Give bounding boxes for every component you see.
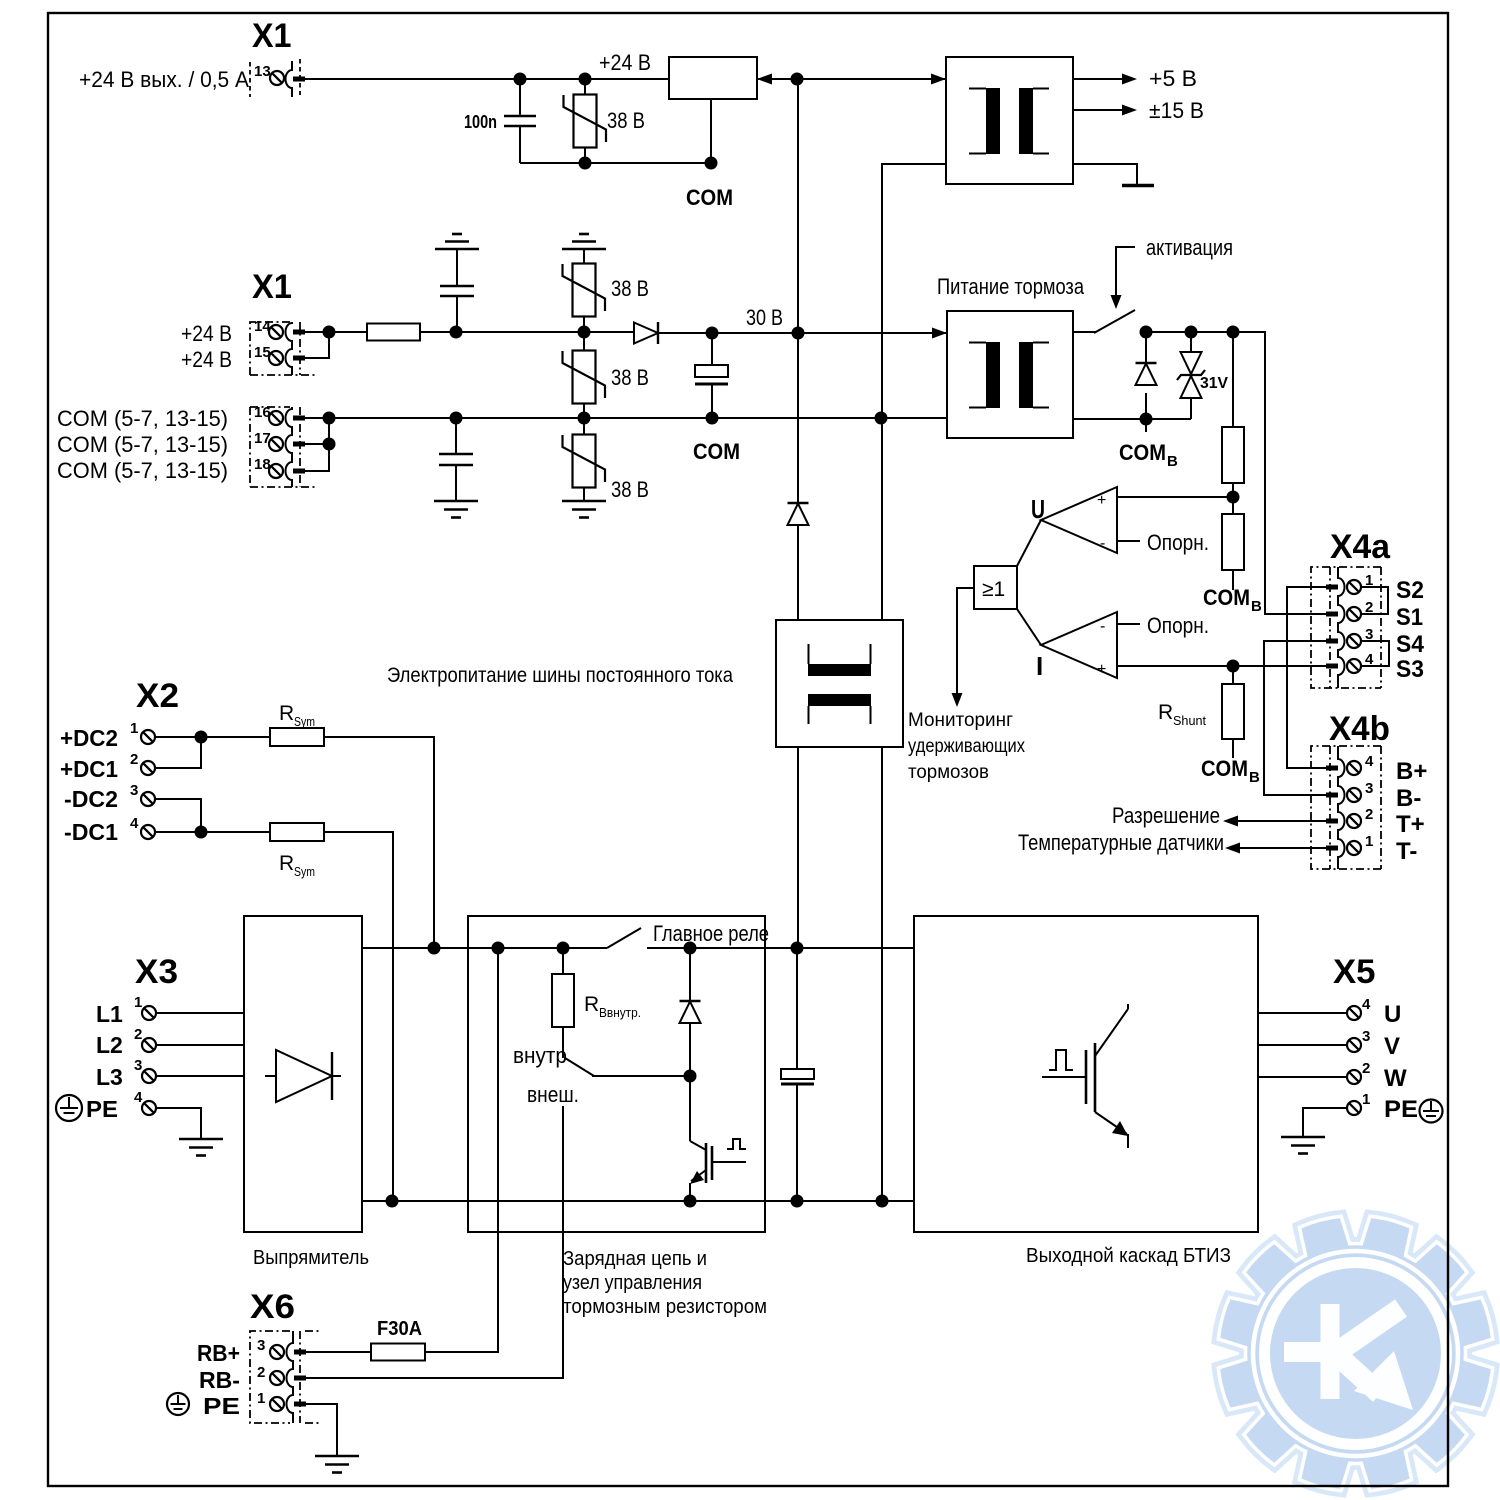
X2 pin 4 — [141, 825, 155, 839]
svg-text:COM: COM — [693, 439, 740, 464]
svg-text:-: - — [1100, 618, 1105, 635]
svg-text:Ввнутр.: Ввнутр. — [599, 1005, 641, 1020]
svg-text:COM: COM — [1201, 756, 1248, 781]
svg-text:X1: X1 — [252, 268, 292, 306]
svg-text:R: R — [279, 702, 294, 725]
jumper S4-S3 — [1362, 641, 1389, 666]
svg-text:Зарядная цепь и: Зарядная цепь и — [563, 1248, 707, 1270]
svg-text:1: 1 — [130, 720, 138, 737]
wire to DC+ bus — [797, 747, 799, 948]
wire U- reference — [1117, 540, 1140, 542]
wire transformer return left — [882, 164, 946, 418]
node — [706, 327, 719, 340]
wire transformer right to chassis — [1073, 164, 1137, 185]
X2 pin 3 — [141, 792, 155, 806]
svg-text:38 В: 38 В — [611, 365, 649, 390]
wire I- reference — [1117, 623, 1140, 625]
svg-text:PE: PE — [1384, 1096, 1418, 1123]
svg-text:COM: COM — [686, 185, 733, 210]
node — [578, 412, 591, 425]
svg-text:внеш.: внеш. — [527, 1082, 579, 1107]
freewheel diode to COMB — [1136, 332, 1157, 419]
wire U+ input — [1117, 496, 1233, 498]
node — [579, 157, 592, 170]
node — [386, 1195, 399, 1208]
vertical 30V feed line — [797, 79, 799, 333]
jumper S2-S1 — [1362, 587, 1388, 614]
svg-text:2: 2 — [130, 751, 138, 768]
svg-text:V: V — [1384, 1033, 1400, 1060]
svg-text:L2: L2 — [96, 1032, 123, 1058]
diode up on 30V line — [788, 333, 809, 620]
svg-text:2: 2 — [257, 1364, 265, 1381]
svg-text:Температурные датчики: Температурные датчики — [1018, 830, 1224, 855]
svg-text:S4: S4 — [1396, 631, 1425, 658]
node — [428, 942, 441, 955]
svg-text:+24 В: +24 В — [181, 321, 232, 346]
node — [323, 326, 336, 339]
svg-text:30 В: 30 В — [746, 305, 783, 330]
comparator U — [1031, 487, 1117, 553]
diode series 24V — [634, 322, 947, 344]
svg-text:Выпрямитель: Выпрямитель — [253, 1247, 369, 1269]
rectifier diode symbol — [265, 1050, 341, 1102]
wire fuse to diode — [420, 331, 634, 333]
transformer brake supply — [947, 311, 1073, 438]
svg-text:3: 3 — [130, 782, 138, 799]
resistor RSym upper — [270, 728, 324, 746]
svg-text:1: 1 — [257, 1390, 265, 1407]
wire box to COM node — [710, 99, 712, 163]
svg-text:L1: L1 — [96, 1001, 123, 1027]
DC bus electrolytic capacitor — [781, 948, 814, 1201]
X1 pin 13 terminal — [270, 71, 284, 85]
svg-text:3: 3 — [134, 1057, 142, 1074]
svg-text:W: W — [1384, 1065, 1407, 1092]
svg-text:4: 4 — [134, 1089, 143, 1106]
output ±15V — [1073, 109, 1124, 111]
svg-text:тормозов: тормозов — [908, 762, 989, 783]
varistor 38 B (COM to earth lower) — [562, 418, 649, 518]
svg-text:Мониторинг: Мониторинг — [908, 710, 1013, 731]
node — [514, 73, 527, 86]
svg-text:T-: T- — [1396, 838, 1417, 865]
X5 pin 3 V — [1258, 1028, 1400, 1060]
node — [323, 438, 336, 451]
OR gate >=1 — [974, 566, 1017, 609]
wire -DC1 — [155, 831, 270, 833]
svg-text:X5: X5 — [1333, 953, 1376, 991]
RB+ line from DC+ bus — [425, 948, 498, 1352]
transformer DC-bus supply — [776, 620, 903, 747]
capacitor COM to earth (lower) — [434, 418, 478, 518]
chopper freewheel diode — [680, 948, 701, 1076]
comparator I — [1036, 612, 1117, 681]
capacitor 100n — [464, 79, 536, 163]
main relay blade — [607, 928, 641, 948]
svg-text:-DC2: -DC2 — [64, 786, 118, 812]
svg-text:+5 В: +5 В — [1149, 66, 1197, 91]
output +5V — [1073, 78, 1124, 80]
svg-text:Sym: Sym — [294, 864, 315, 879]
svg-text:X3: X3 — [135, 953, 178, 991]
charging circuit box — [468, 916, 765, 1232]
fuse — [367, 324, 420, 341]
svg-text:COM (5-7, 13-15): COM (5-7, 13-15) — [57, 458, 228, 483]
X5 pin 4 U — [1258, 996, 1401, 1028]
svg-text:S2: S2 — [1396, 577, 1424, 604]
pin15 wire — [305, 332, 329, 358]
connector X4b body — [1311, 746, 1381, 869]
node — [1140, 326, 1153, 339]
wire L1 — [156, 1012, 244, 1014]
node — [323, 412, 336, 425]
wire to DC- bus — [881, 747, 883, 1201]
output stage box — [914, 916, 1258, 1232]
X1 block pins 16-18 connector body — [250, 404, 318, 487]
X3 pin 4 — [142, 1101, 156, 1115]
wire L2 — [156, 1044, 244, 1046]
svg-text:F30A: F30A — [377, 1318, 422, 1340]
DC- bus — [362, 1200, 914, 1202]
svg-text:B-: B- — [1396, 785, 1421, 812]
vertical return line — [881, 418, 883, 620]
svg-text:+: + — [1097, 661, 1106, 678]
X5 pin 1 PE — [1281, 1091, 1418, 1154]
wire to DC+ bus — [324, 737, 434, 948]
X2 pin 2 — [141, 761, 155, 775]
resistor RSym lower — [270, 823, 324, 841]
wire enable T+ — [1236, 820, 1326, 822]
node — [557, 942, 570, 955]
divider resistor upper — [1222, 332, 1244, 514]
X1 block pins 14-15 connector body — [250, 318, 318, 375]
PE symbol — [56, 1095, 82, 1121]
transformer DC/DC +5/15 — [946, 57, 1073, 184]
wire U output to OR — [1017, 520, 1041, 566]
svg-text:38 В: 38 В — [607, 108, 645, 133]
wire -DC2 — [155, 799, 201, 832]
svg-text:Выходной каскад БТИЗ: Выходной каскад БТИЗ — [1026, 1245, 1231, 1267]
wire 30V out to switch — [1073, 331, 1096, 333]
connector X4a body — [1311, 567, 1381, 688]
svg-text:I: I — [1036, 651, 1043, 681]
switch активация blade — [1094, 310, 1135, 333]
svg-text:38 В: 38 В — [611, 276, 649, 301]
node COM — [705, 157, 718, 170]
output IGBT symbol — [1042, 1004, 1128, 1148]
node — [876, 1195, 889, 1208]
external brake resistor line to RB- — [305, 1106, 563, 1378]
svg-text:X6: X6 — [250, 1288, 295, 1326]
svg-text:R: R — [1158, 701, 1173, 724]
svg-text:38 В: 38 В — [611, 477, 649, 502]
svg-text:+24 В вых. / 0,5 А: +24 В вых. / 0,5 А — [79, 67, 249, 92]
svg-text:13: 13 — [254, 63, 271, 80]
regulator box — [669, 57, 757, 99]
svg-text:31V: 31V — [1200, 375, 1228, 392]
svg-text:PE: PE — [86, 1096, 118, 1122]
DC+ bus right part — [647, 947, 914, 949]
svg-text:2: 2 — [1365, 806, 1373, 823]
svg-text:X4b: X4b — [1329, 710, 1390, 748]
X3 pin 3 — [142, 1069, 156, 1083]
pin18 wire — [305, 418, 329, 471]
svg-text:4: 4 — [130, 815, 139, 832]
wire PE to earth — [156, 1108, 201, 1139]
shunt resistor — [1158, 666, 1260, 786]
activation arrow — [1111, 235, 1234, 309]
svg-text:3: 3 — [257, 1337, 265, 1354]
PE symbol X5 — [1420, 1100, 1443, 1123]
node — [450, 326, 463, 339]
wire PE to earth — [306, 1404, 337, 1456]
svg-text:активация: активация — [1146, 235, 1233, 260]
svg-text:+: + — [1097, 492, 1106, 509]
svg-text:PE: PE — [203, 1393, 240, 1419]
svg-text:COM (5-7, 13-15): COM (5-7, 13-15) — [57, 432, 228, 457]
svg-text:2: 2 — [1362, 1060, 1370, 1077]
node — [875, 412, 888, 425]
wire COM rail bottom — [520, 162, 711, 164]
svg-text:B: B — [1249, 769, 1260, 786]
node — [791, 1195, 804, 1208]
svg-text:L3: L3 — [96, 1064, 123, 1090]
capacitor to earth (upper) — [435, 234, 479, 332]
svg-text:2: 2 — [134, 1026, 142, 1043]
node — [791, 942, 804, 955]
svg-text:S1: S1 — [1396, 604, 1423, 631]
svg-text:T+: T+ — [1396, 811, 1425, 838]
fuse F30A — [371, 1344, 425, 1361]
svg-text:R: R — [584, 993, 599, 1016]
node — [684, 1195, 697, 1208]
wire +DC1 — [155, 737, 201, 768]
svg-text:100n: 100n — [464, 112, 497, 132]
pin14 wire — [305, 331, 367, 333]
node — [492, 942, 505, 955]
svg-text:+DC2: +DC2 — [60, 725, 118, 751]
svg-text:COM (5-7, 13-15): COM (5-7, 13-15) — [57, 406, 228, 431]
svg-text:Разрешение: Разрешение — [1112, 803, 1220, 828]
node — [791, 73, 804, 86]
connector X6 body — [250, 1331, 319, 1423]
X5 pin 2 W — [1258, 1060, 1407, 1092]
X2 pin 1 — [141, 730, 155, 744]
suppressor diode 31V — [1177, 332, 1228, 419]
svg-text:COM: COM — [1203, 585, 1250, 610]
node — [684, 1070, 697, 1083]
svg-text:1: 1 — [1365, 833, 1373, 850]
arrow into transformer — [932, 328, 947, 339]
node — [1140, 413, 1153, 426]
wire S4 to B- — [1264, 641, 1326, 795]
divider resistor lower — [1203, 514, 1262, 615]
wire switched 30V — [1141, 332, 1327, 614]
monitoring output arrow — [908, 588, 1025, 783]
pin16 wire / COM rail — [305, 417, 947, 419]
node — [195, 826, 208, 839]
DC+ bus left part — [362, 947, 607, 949]
wire +DC2 — [155, 736, 270, 738]
svg-text:Электропитание шины постоянног: Электропитание шины постоянного тока — [387, 664, 733, 687]
wire I+ input / S3 line — [1117, 665, 1327, 667]
svg-text:Sym: Sym — [294, 714, 315, 729]
svg-text:Главное реле: Главное реле — [653, 921, 769, 946]
svg-text:внутр: внутр — [513, 1043, 567, 1068]
svg-text:X2: X2 — [136, 677, 179, 715]
rectifier box — [244, 916, 362, 1232]
svg-text:+DC1: +DC1 — [60, 756, 118, 782]
varistor 38 B (to earth upper) — [562, 234, 649, 332]
node — [1227, 660, 1240, 673]
wire temp sensors T- — [1238, 847, 1326, 849]
wire S2 to B+ — [1287, 587, 1326, 768]
node — [1227, 326, 1240, 339]
node — [1227, 491, 1240, 504]
watermark logo gear K — [1218, 1216, 1492, 1490]
node — [1185, 326, 1198, 339]
wire to DC- bus — [324, 832, 393, 1201]
svg-text:B+: B+ — [1396, 758, 1427, 785]
svg-text:U: U — [1384, 1001, 1401, 1028]
wire +24V out rail — [305, 78, 669, 80]
svg-text:X4a: X4a — [1330, 528, 1391, 566]
node — [579, 73, 592, 86]
svg-text:+24 В: +24 В — [181, 347, 232, 372]
node — [706, 412, 719, 425]
svg-text:Опорн.: Опорн. — [1147, 530, 1209, 555]
wire I output to OR — [1017, 609, 1041, 645]
varistor 38 B (top rail) — [564, 79, 646, 163]
X3 pin 2 — [142, 1038, 156, 1052]
svg-text:-DC1: -DC1 — [64, 819, 118, 845]
PE symbol X6 — [167, 1393, 189, 1415]
svg-text:1: 1 — [1362, 1091, 1370, 1108]
svg-text:Shunt: Shunt — [1173, 713, 1206, 728]
svg-text:1: 1 — [134, 994, 142, 1011]
svg-text:B: B — [1251, 598, 1262, 615]
charge resistor R internal — [552, 948, 641, 1058]
wire selector to chopper node — [592, 1075, 690, 1077]
svg-text:3: 3 — [1365, 780, 1373, 797]
svg-text:R: R — [279, 852, 294, 875]
node — [792, 327, 805, 340]
svg-text:S3: S3 — [1396, 656, 1424, 683]
node — [684, 942, 697, 955]
svg-text:X1: X1 — [252, 17, 292, 55]
svg-text:удерживающих: удерживающих — [908, 736, 1025, 757]
svg-text:4: 4 — [1362, 996, 1371, 1013]
label COMB — [1119, 419, 1178, 470]
electrolytic capacitor 30V — [695, 333, 728, 418]
svg-text:B: B — [1167, 453, 1178, 470]
pin17 wire — [305, 443, 329, 445]
svg-text:4: 4 — [1365, 753, 1374, 770]
brake chopper IGBT — [690, 1076, 746, 1201]
svg-text:-: - — [1100, 535, 1105, 552]
int/ext selector blade — [565, 1058, 594, 1076]
X3 pin 1 — [142, 1006, 156, 1020]
svg-text:Питание тормоза: Питание тормоза — [937, 274, 1085, 299]
chassis ground bar — [1122, 184, 1154, 188]
svg-text:3: 3 — [1362, 1028, 1370, 1045]
svg-text:U: U — [1031, 494, 1045, 524]
svg-text:≥1: ≥1 — [982, 578, 1005, 601]
node — [195, 731, 208, 744]
wire L3 — [156, 1075, 244, 1077]
wire RB+ to fuse — [306, 1351, 371, 1353]
svg-text:узел управления: узел управления — [563, 1272, 702, 1294]
varistor 38 B (rail to COM) — [563, 332, 650, 418]
svg-text:+24 В: +24 В — [599, 50, 651, 75]
COMB return wire — [1073, 418, 1191, 420]
node — [578, 326, 591, 339]
svg-text:тормозным резистором: тормозным резистором — [563, 1296, 767, 1318]
bidirectional wire to DC/DC — [757, 78, 946, 80]
svg-text:RB-: RB- — [199, 1367, 240, 1393]
svg-text:±15 В: ±15 В — [1149, 98, 1204, 123]
svg-text:RB+: RB+ — [197, 1340, 240, 1366]
svg-text:COM: COM — [1119, 440, 1166, 465]
svg-text:Опорн.: Опорн. — [1147, 613, 1209, 638]
node — [450, 412, 463, 425]
